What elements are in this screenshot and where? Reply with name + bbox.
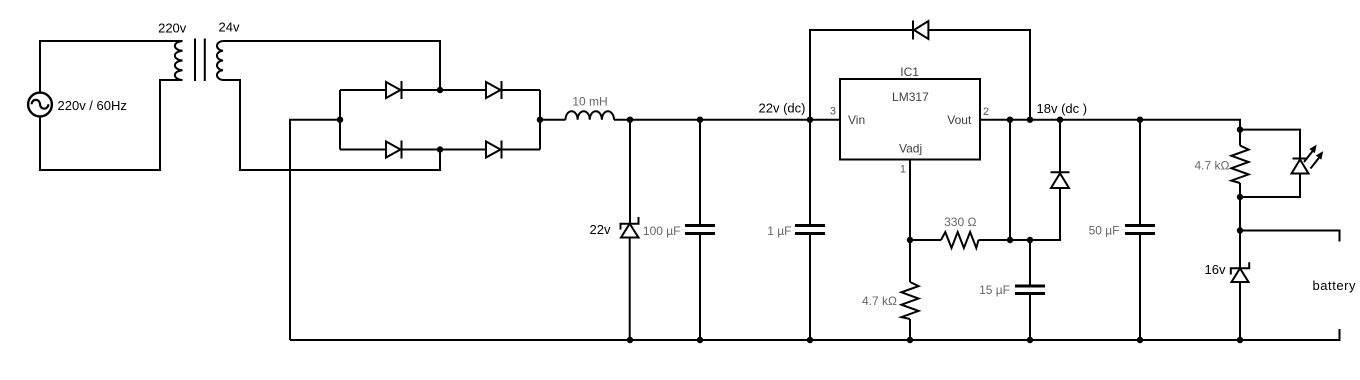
node led top xyxy=(1237,126,1243,132)
node rail 630 xyxy=(627,117,633,123)
wire secondary bottom to bridge bottom node xyxy=(223,80,440,170)
transformer T1 core xyxy=(195,39,205,82)
svg-text:15 µF: 15 µF xyxy=(979,283,1010,297)
diode D6 xyxy=(1051,172,1070,188)
node battery plus xyxy=(1237,227,1243,233)
wire flyback right leg xyxy=(928,30,1030,120)
zener diode 16v xyxy=(1231,262,1249,282)
wire zener branch top xyxy=(629,120,631,224)
transformer T1 secondary winding xyxy=(217,41,223,80)
wire LED branch to battery node xyxy=(1239,197,1241,231)
transformer T1 primary winding xyxy=(175,41,183,80)
wire 100uF top xyxy=(699,120,701,224)
node adj row 1010 xyxy=(1007,237,1013,243)
wire LM317 Vadj pin 1 xyxy=(909,160,911,283)
wire 50uF bottom xyxy=(1139,235,1141,340)
node rail 1140 xyxy=(1137,117,1143,123)
wire 1uF bottom xyxy=(809,235,811,340)
diode D3 xyxy=(386,141,402,159)
svg-text:battery: battery xyxy=(1313,278,1357,293)
svg-text:Vadj: Vadj xyxy=(899,142,922,156)
wire D6 top xyxy=(1059,120,1061,172)
node adj row 1030 xyxy=(1027,237,1033,243)
wire bottom rail xyxy=(290,339,1240,341)
diode D1 xyxy=(386,81,402,99)
node bridge left xyxy=(337,117,343,123)
wire adj row left xyxy=(910,239,941,241)
node gnd 1030 xyxy=(1027,337,1033,343)
svg-text:4.7 kΩ: 4.7 kΩ xyxy=(1195,159,1230,173)
capacitor C1 100 uF xyxy=(685,226,715,234)
diode D4 xyxy=(486,141,502,159)
bridge left edge xyxy=(339,90,341,150)
wire 16v zener top xyxy=(1239,231,1241,269)
svg-text:18v (dc ): 18v (dc ) xyxy=(1037,101,1088,116)
wire bridge positive output to inductor xyxy=(540,119,566,121)
ac source V1 xyxy=(28,93,52,117)
wire bridge bottom rail segments xyxy=(340,149,540,151)
wire LM317 Vout pin 2 to 18v rail xyxy=(980,120,1240,130)
svg-text:1: 1 xyxy=(900,164,906,176)
node rail 1060 xyxy=(1057,117,1063,123)
node rail 1010 xyxy=(1007,117,1013,123)
op-amp U1 LM317 regulator box xyxy=(840,79,980,160)
wire bridge top rail segments xyxy=(340,89,540,91)
wire battery negative bracket xyxy=(1240,329,1340,340)
svg-text:Vout: Vout xyxy=(947,113,972,127)
wire 50uF top xyxy=(1139,120,1141,224)
zener diode 22v xyxy=(621,217,639,238)
svg-text:3: 3 xyxy=(830,105,836,117)
wire secondary top to bridge top node xyxy=(223,41,440,90)
wire battery positive bracket xyxy=(1240,231,1340,242)
svg-text:IC1: IC1 xyxy=(900,65,919,79)
node led bottom xyxy=(1237,194,1243,200)
svg-text:220v / 60Hz: 220v / 60Hz xyxy=(58,98,127,113)
node gnd 810 xyxy=(807,337,813,343)
node gnd 910 xyxy=(907,337,913,343)
wire 22v dc rail to LM317 Vin pin 3 xyxy=(614,119,840,121)
wire zener branch bottom xyxy=(629,238,631,341)
LED D7 xyxy=(1292,159,1309,174)
capacitor C4 50 uF xyxy=(1125,226,1155,234)
bridge right edge xyxy=(539,90,541,150)
node bridge top xyxy=(437,87,443,93)
wire R1 bottom xyxy=(909,319,911,340)
node bridge bottom xyxy=(437,146,443,152)
wire R3 top lead xyxy=(1239,130,1241,146)
svg-text:22v (dc): 22v (dc) xyxy=(759,101,806,116)
wire LED top xyxy=(1240,130,1300,158)
svg-text:100 µF: 100 µF xyxy=(643,224,681,238)
resistor R1 4.7 kOhm xyxy=(901,282,918,319)
resistor R3 4.7 kOhm xyxy=(1231,146,1248,184)
wire bridge negative output to bottom rail xyxy=(290,120,340,340)
resistor R2 330 Ohm xyxy=(941,232,979,248)
node gnd 630 xyxy=(627,337,633,343)
svg-text:220v: 220v xyxy=(158,21,187,36)
wire adj row right xyxy=(979,188,1061,240)
node rail 1030 xyxy=(1027,117,1033,123)
wire LED bottom xyxy=(1240,174,1300,198)
node rail 700 xyxy=(697,117,703,123)
svg-text:1 µF: 1 µF xyxy=(767,224,791,238)
node bridge right xyxy=(537,117,543,123)
node gnd 700 xyxy=(697,337,703,343)
diode D2 xyxy=(486,81,502,99)
wire source top to transformer primary xyxy=(40,41,183,93)
wire 16v zener bottom xyxy=(1239,282,1241,340)
wire 15uF bottom xyxy=(1029,295,1031,340)
diode D5 flyback xyxy=(913,21,928,40)
wire 15uF top xyxy=(1029,240,1031,285)
svg-text:10 mH: 10 mH xyxy=(572,95,607,109)
wire primary bottom to source bottom xyxy=(40,80,183,170)
capacitor C2 1 uF xyxy=(795,226,825,234)
wire flyback left leg xyxy=(810,30,913,120)
svg-text:22v: 22v xyxy=(590,222,611,237)
svg-text:50 µF: 50 µF xyxy=(1089,224,1120,238)
node gnd 1140 xyxy=(1137,337,1143,343)
svg-text:16v: 16v xyxy=(1205,262,1226,277)
node rail 810 xyxy=(807,117,813,123)
LED arrows xyxy=(1304,146,1323,169)
wire 100uF bottom xyxy=(699,235,701,340)
inductor L1 10 mH xyxy=(566,111,615,120)
wire 1uF top xyxy=(809,120,811,224)
svg-text:LM317: LM317 xyxy=(892,90,929,104)
svg-text:4.7 kΩ: 4.7 kΩ xyxy=(862,294,897,308)
svg-text:330 Ω: 330 Ω xyxy=(944,215,976,229)
node gnd 1240 xyxy=(1237,337,1243,343)
svg-text:24v: 24v xyxy=(219,20,240,35)
node adj row 910 xyxy=(907,237,913,243)
svg-text:2: 2 xyxy=(983,106,989,118)
svg-text:Vin: Vin xyxy=(848,113,865,127)
wire output sense xyxy=(1009,120,1011,240)
wire R3 bottom lead xyxy=(1239,183,1241,197)
capacitor C3 15 uF xyxy=(1015,286,1045,294)
